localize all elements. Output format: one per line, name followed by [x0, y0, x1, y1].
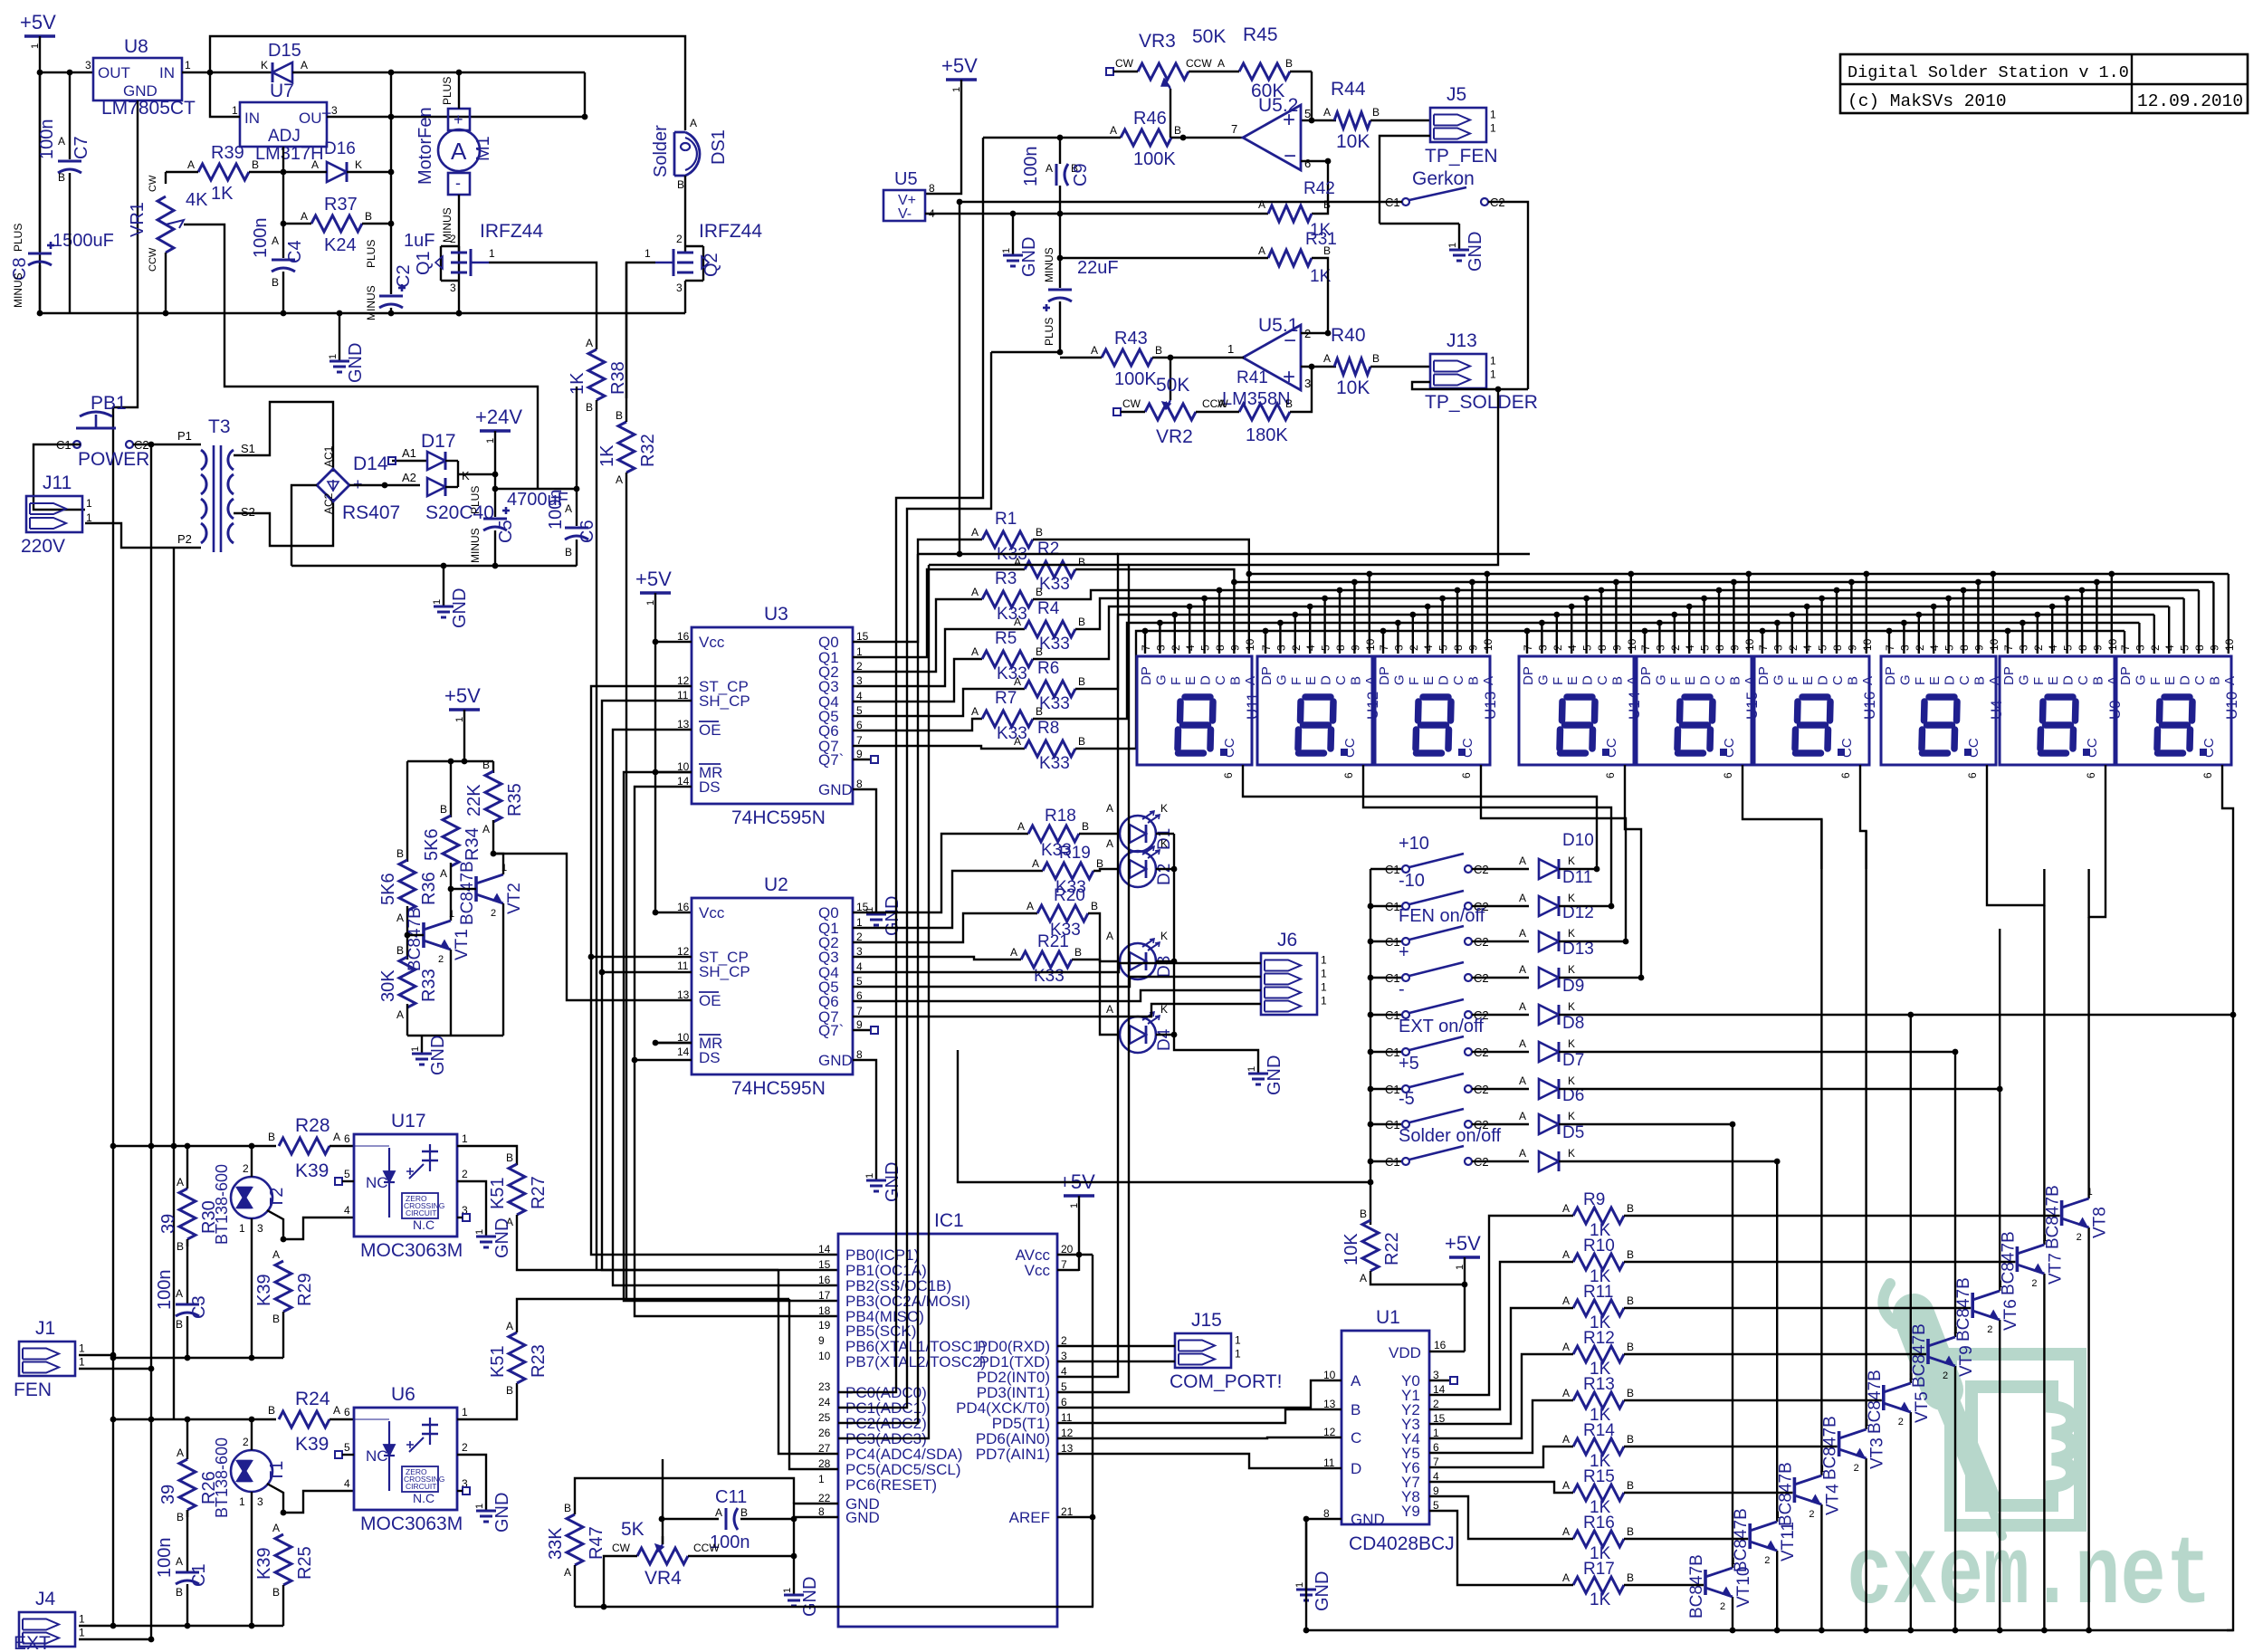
- wire U2 control taps onto bundle: [591, 956, 692, 958]
- svg-text:R7: R7: [995, 689, 1017, 708]
- wire U1 GND to ground: [1428, 1518, 1430, 1520]
- svg-text:2: 2: [2149, 645, 2162, 651]
- svg-text:N.C: N.C: [413, 1491, 434, 1505]
- svg-text:B: B: [482, 759, 490, 771]
- svg-text:B: B: [268, 1131, 275, 1143]
- svg-text:1: 1: [1246, 1066, 1257, 1072]
- svg-text:CC: CC: [2085, 738, 2100, 758]
- svg-text:R31: R31: [1305, 230, 1337, 249]
- svg-text:K33: K33: [1039, 754, 1070, 773]
- svg-text:SH_CP: SH_CP: [699, 963, 750, 980]
- svg-text:PLUS: PLUS: [365, 240, 377, 268]
- resistor R10 1K: [1573, 1254, 1624, 1270]
- svg-text:D16: D16: [324, 139, 356, 158]
- wire display CC9 via right edge: [2222, 792, 2233, 1630]
- svg-text:−: −: [1284, 144, 1296, 168]
- wire AVcc node down right edge to AREF: [1092, 1255, 1093, 1358]
- svg-text:K33: K33: [1039, 635, 1070, 654]
- svg-text:15: 15: [818, 1258, 831, 1271]
- svg-text:E: E: [1565, 676, 1580, 685]
- svg-text:U5.2: U5.2: [1258, 95, 1298, 116]
- svg-text:1: 1: [79, 1342, 85, 1355]
- svg-text:100n: 100n: [251, 218, 271, 259]
- svg-text:220V: 220V: [21, 536, 65, 557]
- regulator U8 LM7805CT: [93, 58, 182, 100]
- svg-text:19: 19: [818, 1319, 831, 1332]
- svg-text:DP: DP: [1259, 666, 1275, 685]
- svg-text:10K: 10K: [1336, 377, 1370, 398]
- triac T1 BT138-600: [231, 1450, 272, 1492]
- svg-text:Q2: Q2: [702, 253, 721, 277]
- svg-text:A: A: [1014, 675, 1021, 688]
- svg-text:R44: R44: [1331, 79, 1366, 100]
- svg-text:R4: R4: [1037, 599, 1060, 618]
- svg-text:10: 10: [1861, 638, 1874, 651]
- svg-text:2: 2: [462, 1168, 468, 1180]
- svg-text:AREF: AREF: [1009, 1509, 1050, 1526]
- svg-text:2: 2: [438, 954, 444, 965]
- svg-text:24: 24: [818, 1396, 831, 1408]
- svg-text:COM_PORT!: COM_PORT!: [1170, 1371, 1282, 1392]
- svg-text:4: 4: [1928, 645, 1941, 651]
- svg-text:S1: S1: [241, 442, 255, 455]
- svg-text:22K: 22K: [464, 784, 484, 816]
- svg-text:2: 2: [2032, 645, 2045, 651]
- svg-text:Q7`: Q7`: [818, 751, 844, 769]
- svg-text:GND: GND: [1466, 232, 1485, 272]
- svg-text:BC847B: BC847B: [2044, 1185, 2063, 1249]
- svg-text:CW: CW: [612, 1542, 631, 1554]
- svg-text:B: B: [1323, 244, 1331, 257]
- svg-text:BC847B: BC847B: [1732, 1508, 1751, 1572]
- ground symbol near Gerkon: [1458, 224, 1460, 237]
- svg-text:CCW: CCW: [1186, 57, 1212, 70]
- transistor VT1 BC847B: [422, 922, 425, 948]
- potentiometer VR3 50K: [1138, 63, 1189, 80]
- resistor R44 10K: [1334, 112, 1370, 129]
- svg-text:OUT: OUT: [98, 64, 130, 81]
- svg-text:A: A: [176, 1287, 183, 1300]
- capacitor C8 1500uF: [39, 72, 41, 252]
- svg-text:A: A: [971, 526, 979, 539]
- svg-text:CCW: CCW: [148, 247, 158, 272]
- svg-text:7: 7: [2119, 645, 2132, 651]
- svg-text:7: 7: [1260, 645, 1273, 651]
- wire U17 pin1 to R27: [457, 1146, 517, 1165]
- resistor R32 1K: [618, 422, 635, 473]
- svg-text:K33: K33: [1039, 575, 1070, 594]
- svg-text:A: A: [1046, 162, 1053, 175]
- svg-text:16: 16: [818, 1274, 831, 1286]
- svg-text:CC: CC: [1460, 738, 1475, 758]
- svg-text:7: 7: [1522, 645, 1534, 651]
- svg-text:E: E: [1303, 676, 1319, 685]
- wire T3 S1 to bridge AC1: [234, 402, 333, 472]
- 7-segment display U14: [1519, 656, 1634, 765]
- svg-text:PB7(XTAL2/TOSC2): PB7(XTAL2/TOSC2): [845, 1353, 986, 1370]
- svg-text:U15: U15: [1743, 692, 1761, 720]
- transistor VT8 BC847B: [2060, 1200, 2064, 1226]
- svg-text:R15: R15: [1583, 1467, 1615, 1486]
- svg-text:K24: K24: [324, 235, 357, 255]
- wire to diode row 5: [1472, 1014, 1529, 1016]
- resistor R6 K33: [1025, 681, 1075, 697]
- svg-text:K33: K33: [1039, 694, 1070, 713]
- wire C11 node down to ground: [793, 1556, 795, 1582]
- wire opamp - input feedback to R42: [1301, 161, 1328, 214]
- IC U2 74HC595N: [692, 898, 853, 1074]
- svg-text:D17: D17: [421, 431, 456, 452]
- svg-text:23: 23: [818, 1380, 831, 1393]
- svg-text:1: 1: [1321, 968, 1327, 980]
- svg-text:A: A: [1014, 556, 1021, 568]
- svg-text:K33: K33: [997, 605, 1027, 624]
- svg-text:G: G: [1535, 674, 1551, 685]
- svg-text:C9: C9: [1071, 163, 1091, 186]
- resistor R11 1K: [1573, 1300, 1624, 1316]
- svg-text:R35: R35: [505, 783, 525, 816]
- LED D2: [1120, 851, 1156, 887]
- bottom rail of 24V section with ground: [291, 565, 577, 567]
- svg-text:A: A: [482, 823, 490, 836]
- svg-text:R27: R27: [529, 1176, 549, 1209]
- svg-text:8: 8: [1714, 645, 1726, 651]
- svg-text:9: 9: [1846, 645, 1858, 651]
- svg-text:BC847B: BC847B: [1687, 1554, 1706, 1619]
- svg-text:6: 6: [1604, 772, 1617, 778]
- wire to diode row 1: [1472, 868, 1529, 870]
- svg-text:A: A: [311, 158, 319, 171]
- svg-text:K: K: [1568, 1000, 1575, 1013]
- connector J11 220V: [26, 496, 82, 532]
- wire U3 MR to +5V column: [655, 771, 692, 773]
- svg-text:A: A: [2222, 676, 2238, 685]
- svg-text:A: A: [1519, 1000, 1526, 1013]
- wire AREF to rail: [1057, 1517, 1093, 1607]
- svg-text:10: 10: [2106, 638, 2119, 651]
- svg-text:A: A: [1106, 837, 1113, 850]
- svg-text:J6: J6: [1277, 930, 1297, 950]
- resistor R15 1K: [1573, 1485, 1624, 1501]
- svg-text:A: A: [1562, 1202, 1570, 1215]
- svg-text:K33: K33: [997, 664, 1027, 683]
- svg-text:Q7`: Q7`: [818, 1022, 844, 1039]
- resistor R46 100K: [1121, 129, 1171, 146]
- svg-text:8: 8: [1452, 645, 1465, 651]
- wire U7 IN from +5V via left: [210, 72, 240, 117]
- resistor R1 K33: [982, 531, 1033, 548]
- resistor R8 K33: [1025, 740, 1075, 757]
- capacitor C9 100n: [1055, 164, 1058, 186]
- svg-text:14: 14: [677, 1046, 690, 1058]
- wire PD2/PD3 to Gerkon nets: [1057, 554, 1530, 1377]
- svg-text:PLUS: PLUS: [1043, 318, 1055, 346]
- svg-text:VT4: VT4: [1823, 1484, 1842, 1515]
- power rail +5V near U1: [1449, 1256, 1480, 1258]
- svg-text:8: 8: [1958, 645, 1971, 651]
- svg-text:3: 3: [1304, 377, 1311, 390]
- svg-text:B: B: [1078, 735, 1085, 748]
- wire triac top rail T1: [113, 1418, 276, 1420]
- svg-text:B: B: [252, 158, 259, 171]
- ground symbol for VT1/VT2: [421, 1036, 423, 1041]
- svg-text:10: 10: [1743, 638, 1756, 651]
- svg-text:R3: R3: [995, 569, 1017, 588]
- svg-text:A: A: [1351, 1372, 1361, 1389]
- svg-text:R22: R22: [1382, 1232, 1402, 1265]
- wire R22 to +5V: [1370, 1271, 1465, 1284]
- svg-text:C5: C5: [496, 520, 516, 543]
- svg-text:2: 2: [491, 908, 496, 919]
- wire +24V node right to C6 column: [495, 488, 577, 490]
- resistor R30 39: [179, 1189, 196, 1239]
- wire to diode row 9: [1472, 1160, 1529, 1162]
- svg-text:10: 10: [2223, 638, 2236, 651]
- svg-text:4: 4: [1304, 645, 1317, 651]
- svg-text:4: 4: [1422, 645, 1435, 651]
- svg-text:BC847B: BC847B: [406, 907, 425, 971]
- svg-text:Solder: Solder: [651, 125, 671, 177]
- svg-text:8: 8: [2077, 645, 2089, 651]
- svg-text:ADJ: ADJ: [268, 127, 301, 146]
- ground symbol under U1: [1305, 1577, 1307, 1590]
- svg-text:U13: U13: [1482, 692, 1499, 720]
- svg-text:4: 4: [2163, 645, 2176, 651]
- svg-text:K: K: [355, 158, 362, 171]
- wire +5V to U3 Vcc and down to U2 Vcc: [654, 593, 656, 642]
- diode D13: [1539, 968, 1559, 988]
- svg-text:CC: CC: [1342, 738, 1358, 758]
- svg-text:1: 1: [1321, 981, 1327, 994]
- wire R21 to LED: [1072, 960, 1119, 1035]
- svg-text:CC: CC: [1222, 738, 1237, 758]
- wire to diode row 6: [1472, 1051, 1529, 1053]
- svg-text:LM358N: LM358N: [1222, 389, 1291, 409]
- resistor R4 K33: [1025, 621, 1075, 637]
- wire LED D2 cathode: [1156, 868, 1174, 870]
- wire VR1 wiper to ADJ net: [184, 224, 538, 489]
- diode D8: [1539, 1042, 1559, 1062]
- svg-text:M1: M1: [473, 136, 493, 161]
- svg-text:F: F: [1913, 677, 1928, 685]
- svg-text:B: B: [1627, 1433, 1634, 1446]
- wire D17 K to +24V node: [458, 473, 495, 475]
- wire R19 to LED: [1093, 869, 1119, 871]
- svg-text:9: 9: [1610, 645, 1623, 651]
- svg-text:A: A: [1860, 676, 1876, 685]
- svg-text:A: A: [1323, 352, 1331, 365]
- svg-text:B: B: [1348, 676, 1363, 685]
- svg-text:K: K: [1568, 892, 1575, 904]
- watermark logo: [1951, 1354, 2080, 1525]
- ground symbol on V- net: [1012, 214, 1014, 243]
- triac T2 BT138-600: [231, 1177, 272, 1218]
- svg-text:R47: R47: [587, 1526, 606, 1560]
- svg-text:R2: R2: [1037, 540, 1059, 559]
- wire triac feedback nets to PC4/PC5: [778, 1270, 838, 1454]
- svg-text:2: 2: [1898, 1417, 1904, 1428]
- svg-text:39: 39: [158, 1485, 178, 1504]
- svg-text:B: B: [1372, 352, 1380, 365]
- svg-text:12.09.2010: 12.09.2010: [2137, 91, 2243, 111]
- svg-text:DP: DP: [1139, 666, 1154, 685]
- svg-text:F: F: [1786, 677, 1801, 685]
- svg-text:BC847B: BC847B: [1776, 1462, 1795, 1526]
- svg-text:33K: 33K: [546, 1527, 566, 1560]
- wire U17 pin2 to ground: [457, 1181, 486, 1224]
- svg-text:C: C: [1351, 1429, 1361, 1447]
- svg-text:OUT: OUT: [299, 110, 331, 127]
- svg-text:B: B: [1036, 526, 1043, 539]
- svg-text:K: K: [462, 469, 470, 482]
- svg-text:A: A: [1217, 57, 1225, 70]
- svg-text:3: 3: [1536, 645, 1549, 651]
- svg-text:B: B: [2207, 676, 2222, 685]
- svg-text:B: B: [177, 1511, 184, 1523]
- svg-text:10: 10: [1626, 638, 1638, 651]
- svg-text:Gerkon: Gerkon: [1412, 168, 1475, 189]
- transistor VT2 BC847B: [474, 876, 478, 902]
- svg-text:K: K: [1160, 837, 1168, 850]
- svg-text:3: 3: [1275, 645, 1287, 651]
- svg-text:B: B: [1227, 676, 1243, 685]
- wire to diode row 4: [1472, 977, 1529, 979]
- svg-text:B: B: [177, 1240, 184, 1253]
- svg-text:A: A: [1243, 676, 1258, 685]
- ground symbol under U17: [485, 1224, 487, 1237]
- svg-text:Y9: Y9: [1401, 1503, 1420, 1520]
- svg-text:U3: U3: [764, 604, 788, 625]
- svg-text:D: D: [1319, 675, 1334, 685]
- svg-text:1: 1: [239, 1222, 245, 1235]
- svg-text:R40: R40: [1331, 325, 1366, 346]
- wire Gerkon C1 left (long net): [960, 201, 1402, 203]
- connector J1 FEN: [19, 1342, 75, 1376]
- svg-text:D: D: [2178, 675, 2193, 685]
- svg-text:R6: R6: [1037, 659, 1059, 678]
- svg-text:U5: U5: [894, 169, 918, 189]
- svg-text:B: B: [1727, 676, 1743, 685]
- wire +5V node to U8 OUT: [40, 72, 93, 73]
- wire + input to R40: [1312, 366, 1336, 368]
- svg-text:K: K: [1568, 1147, 1575, 1160]
- svg-text:6: 6: [1304, 157, 1311, 170]
- svg-text:+5: +5: [1399, 1054, 1419, 1074]
- resistor R35 22K: [485, 771, 501, 822]
- wire U2 Q0-Q3 staircase to R18-R21: [853, 834, 1028, 912]
- svg-text:2: 2: [1809, 1509, 1814, 1520]
- svg-text:P2: P2: [177, 532, 192, 546]
- power rail +5V above R35: [449, 708, 480, 711]
- svg-text:R33: R33: [419, 969, 439, 1002]
- svg-text:9: 9: [1972, 645, 1985, 651]
- wire U8 IN to D15: [182, 72, 272, 73]
- svg-text:6: 6: [1722, 772, 1734, 778]
- svg-text:5K6: 5K6: [422, 828, 442, 861]
- svg-text:B: B: [1174, 124, 1181, 137]
- svg-text:K51: K51: [488, 1177, 508, 1209]
- svg-text:1: 1: [1235, 1348, 1241, 1361]
- svg-text:6: 6: [2085, 772, 2097, 778]
- svg-text:E: E: [2163, 676, 2178, 685]
- svg-text:9: 9: [1466, 645, 1479, 651]
- svg-text:1: 1: [239, 1495, 245, 1508]
- wire transistor emitters to bottom rail: [1732, 1597, 1733, 1630]
- top rail net from U8-IN up and right to DS1: [210, 36, 685, 130]
- svg-text:2: 2: [1669, 645, 1682, 651]
- svg-text:A: A: [1562, 1341, 1570, 1353]
- ground symbol for LEDs: [1257, 1061, 1259, 1074]
- wire R34 bottom to VT1 collector: [450, 863, 452, 921]
- svg-text:A: A: [1562, 1294, 1570, 1307]
- svg-text:B: B: [1078, 616, 1085, 628]
- wire VR4 terminals: [604, 1556, 637, 1607]
- svg-text:D: D: [1698, 675, 1714, 685]
- svg-text:4: 4: [344, 1204, 350, 1217]
- wire segment bus lines A-DP: [1033, 540, 1249, 574]
- svg-text:K: K: [1160, 930, 1168, 942]
- svg-text:K: K: [1568, 855, 1575, 867]
- svg-text:A: A: [1106, 1003, 1113, 1016]
- svg-text:IRFZ44: IRFZ44: [699, 221, 762, 242]
- wire R17 to transistor base: [1624, 1584, 1704, 1586]
- resistor R17 1K: [1573, 1577, 1624, 1593]
- svg-text:GND: GND: [1313, 1571, 1332, 1611]
- svg-text:3: 3: [676, 282, 683, 294]
- svg-text:1: 1: [2087, 1187, 2093, 1198]
- diode D7: [1539, 1079, 1559, 1099]
- svg-text:C: C: [1333, 675, 1349, 685]
- svg-text:BT138-600: BT138-600: [213, 1437, 231, 1518]
- svg-text:A: A: [333, 1131, 340, 1143]
- wire R11 to transistor base: [1624, 1307, 1971, 1309]
- power rail +24V: [480, 429, 511, 432]
- svg-text:U2: U2: [764, 874, 788, 895]
- svg-text:B: B: [1627, 1479, 1634, 1492]
- svg-text:1: 1: [328, 354, 339, 359]
- wire U6 pin2 to ground: [457, 1455, 486, 1498]
- svg-text:3: 3: [257, 1495, 263, 1508]
- svg-text:R10: R10: [1583, 1237, 1615, 1256]
- svg-text:7: 7: [1757, 645, 1770, 651]
- wire VT1/VT2 emitters to ground rail: [406, 1004, 408, 1036]
- svg-text:4: 4: [1566, 645, 1579, 651]
- svg-text:D8: D8: [1562, 1014, 1584, 1033]
- svg-text:VT5: VT5: [1913, 1391, 1932, 1423]
- wire R45 B down to opamp + input: [1301, 72, 1312, 120]
- svg-text:K39: K39: [295, 1160, 329, 1181]
- svg-text:B: B: [564, 1502, 571, 1514]
- svg-text:5K: 5K: [621, 1519, 645, 1540]
- svg-text:B: B: [1627, 1525, 1634, 1538]
- svg-text:100n: 100n: [1021, 147, 1041, 187]
- power rail +5V above U3: [640, 591, 671, 594]
- svg-text:IC1: IC1: [934, 1210, 964, 1231]
- svg-text:K: K: [1568, 1074, 1575, 1087]
- svg-text:MINUS: MINUS: [12, 272, 24, 308]
- svg-text:74HC595N: 74HC595N: [731, 807, 826, 828]
- svg-text:D: D: [1437, 675, 1452, 685]
- resistor R18 K33: [1028, 826, 1079, 842]
- wire J13 pin2 return: [1412, 382, 1528, 389]
- svg-text:R43: R43: [1114, 329, 1148, 349]
- svg-text:4: 4: [344, 1477, 350, 1490]
- svg-text:U10: U10: [2223, 692, 2240, 720]
- svg-text:16: 16: [1434, 1339, 1447, 1351]
- svg-text:10: 10: [1988, 638, 2000, 651]
- svg-text:A: A: [1519, 892, 1526, 904]
- svg-text:D11: D11: [1562, 868, 1592, 887]
